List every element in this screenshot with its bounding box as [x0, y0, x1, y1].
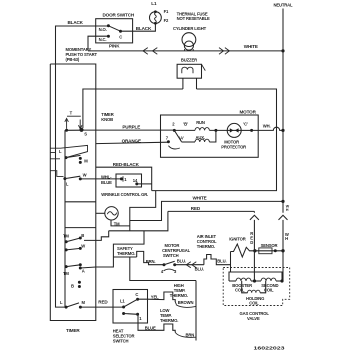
door switch common C [119, 30, 122, 33]
timer M contact [65, 156, 68, 159]
cylinder light bulb [182, 33, 196, 47]
timer common vertical [64, 130, 66, 307]
svg-text:TM: TM [63, 233, 69, 238]
svg-text:TM: TM [63, 271, 69, 276]
timer W contact (wrinkle) [63, 177, 66, 180]
svg-text:SWITCH: SWITCH [113, 338, 129, 343]
svg-text:F1: F1 [164, 9, 169, 14]
svg-text:BLU.: BLU. [177, 259, 186, 264]
timer cam bracket [50, 145, 87, 158]
wire orange to motor 7 [96, 142, 169, 143]
svg-text:N.C.: N.C. [99, 37, 107, 42]
booster coil [229, 280, 236, 282]
svg-text:THERMO.: THERMO. [160, 318, 178, 323]
svg-text:BLUE: BLUE [101, 180, 112, 185]
svg-text:TIMER: TIMER [66, 328, 80, 333]
door switch box [96, 19, 133, 43]
holding coil [242, 281, 248, 293]
svg-text:CYLINDER LIGHT: CYLINDER LIGHT [173, 26, 207, 31]
svg-text:COIL: COIL [249, 301, 259, 306]
wire N.C. pink down to lamp line [88, 36, 108, 51]
svg-text:VALVE: VALVE [247, 316, 260, 321]
svg-text:RED: RED [191, 206, 201, 211]
svg-text:RED-BLACK: RED-BLACK [113, 162, 140, 167]
svg-text:NEUTRAL: NEUTRAL [274, 2, 294, 7]
sensor [253, 249, 256, 252]
svg-text:BROWN: BROWN [178, 300, 194, 305]
motor junction [214, 129, 217, 132]
buzzer box [177, 64, 201, 78]
svg-text:BLACK: BLACK [136, 26, 152, 31]
svg-text:S: S [84, 131, 87, 136]
timer motor TM [105, 207, 118, 220]
svg-text:SWITCH: SWITCH [163, 253, 179, 258]
wire blue to low temp thermo [138, 314, 176, 332]
brn contact arm low [175, 332, 196, 337]
wire timer B stair [84, 231, 109, 241]
svg-text:B: B [81, 233, 84, 238]
gas valve inner box [229, 272, 282, 281]
svg-text:THERMO.: THERMO. [170, 293, 188, 298]
svg-text:L1: L1 [151, 1, 157, 6]
svg-text:WRINKLE CONTROL GR.: WRINKLE CONTROL GR. [101, 192, 148, 197]
gas control valve dashed box [223, 268, 290, 306]
svg-text:N.O.: N.O. [99, 27, 107, 32]
svg-text:THERMO.: THERMO. [197, 244, 215, 249]
gas valve verticals [230, 252, 232, 273]
timer inner shelf 1 [65, 201, 96, 203]
wire red-black from M [96, 167, 152, 190]
timer inner shelf 2 [65, 227, 96, 229]
svg-text:BRN: BRN [186, 333, 195, 338]
wire timer motor stair [111, 220, 130, 226]
svg-text:THERMO.: THERMO. [117, 251, 135, 256]
timer contact pair 0 [78, 281, 81, 284]
motor centrifugal arc [168, 146, 179, 149]
timer S contact [65, 129, 68, 132]
svg-text:16022023: 16022023 [254, 345, 286, 350]
svg-text:WHITE: WHITE [193, 196, 207, 201]
svg-text:TM: TM [114, 221, 120, 226]
svg-text:BRN.: BRN. [146, 259, 156, 264]
W-H connector [279, 215, 288, 220]
buzzer legs [182, 78, 184, 89]
heat selector switch box [113, 290, 148, 324]
door switch N.O. contact [107, 24, 110, 27]
svg-text:C: C [119, 35, 122, 40]
motor terminal 2 [173, 129, 176, 132]
wire W to wrinkle control [80, 178, 121, 180]
door switch N.C. contact [107, 35, 110, 38]
motor start switch arm [174, 130, 181, 141]
svg-text:WH.: WH. [263, 124, 271, 129]
svg-text:KNOB: KNOB [101, 117, 113, 122]
wire pink/white lamp line to neutral [88, 50, 283, 52]
motor box [161, 115, 259, 157]
svg-text:F2: F2 [164, 18, 169, 23]
wire red to heat selector [80, 306, 123, 308]
wire stair riser [130, 191, 156, 231]
svg-text:BLACK: BLACK [68, 20, 84, 25]
buzzer coil [182, 67, 193, 73]
svg-text:B: B [71, 283, 74, 288]
timer contact W2 [65, 248, 68, 251]
svg-text:'B': 'B' [183, 122, 188, 127]
svg-text:COIL: COIL [264, 288, 274, 293]
svg-text:(PB-63): (PB-63) [66, 57, 80, 62]
wire motor C to neutral with hop [252, 127, 283, 130]
neutral rail [282, 9, 284, 213]
svg-text:MOTOR: MOTOR [240, 110, 257, 115]
brown contact arm [175, 302, 196, 308]
svg-text:H: H [285, 236, 288, 241]
svg-text:COIL: COIL [235, 288, 245, 293]
svg-text:ORANGE: ORANGE [122, 138, 141, 143]
svg-text:PURPLE: PURPLE [122, 125, 140, 130]
svg-text:YEL: YEL [151, 294, 159, 299]
svg-text:W: W [83, 173, 87, 178]
svg-text:BLU.: BLU. [217, 258, 226, 263]
svg-text:RUN: RUN [196, 120, 205, 125]
svg-text:C: C [135, 292, 138, 297]
svg-text:PROTECTOR: PROTECTOR [221, 145, 246, 150]
svg-text:DOOR SWITCH: DOOR SWITCH [103, 13, 135, 18]
svg-text:BUZZER: BUZZER [181, 58, 197, 63]
svg-text:A: A [82, 268, 85, 273]
wire start S riser to buzzer [83, 89, 183, 128]
wrinkle control box [116, 174, 142, 187]
svg-text:BLU.: BLU. [195, 266, 204, 271]
svg-text:WHL-: WHL- [101, 175, 112, 180]
wire red line [168, 210, 255, 212]
svg-text:BLUE: BLUE [145, 325, 156, 330]
wire C to thermal fuse [121, 23, 156, 31]
wire white mid to neutral [130, 201, 283, 220]
svg-text:RED: RED [98, 300, 108, 305]
svg-text:PINK: PINK [109, 44, 120, 49]
wire safety branch [113, 256, 136, 258]
connector chevrons right [219, 48, 224, 55]
wire stair low line to red riser [109, 211, 168, 230]
svg-text:D: D [250, 240, 253, 245]
timer box [50, 64, 96, 321]
wire yel to high temp thermo [138, 292, 176, 302]
motor terminal 7 [167, 140, 170, 143]
thermo return to safety line [130, 257, 196, 281]
buzzer striker [202, 64, 206, 70]
svg-text:NOT RESETABLE: NOT RESETABLE [177, 16, 210, 21]
wire A to safety thermostat [80, 231, 144, 268]
door switch arm N.O. to C [108, 26, 120, 31]
wire blu to connector [175, 264, 204, 266]
wire purple S to motor [83, 129, 174, 131]
svg-text:WHITE: WHITE [244, 44, 258, 49]
R-D connector [253, 211, 255, 212]
second coil [261, 278, 276, 281]
svg-text:'C': 'C' [243, 122, 248, 127]
thermal fuse F1 F2 [150, 12, 162, 24]
connector chevrons left [143, 48, 148, 55]
wire buzzer return to white/neutral [152, 89, 277, 191]
svg-text:IGNITOR: IGNITOR [229, 236, 245, 241]
thermo return vertical [195, 281, 197, 341]
svg-text:'A': 'A' [179, 136, 184, 141]
wire black feed from door switch down left side [56, 26, 109, 307]
motor protector [227, 123, 241, 137]
svg-text:W: W [81, 243, 85, 248]
